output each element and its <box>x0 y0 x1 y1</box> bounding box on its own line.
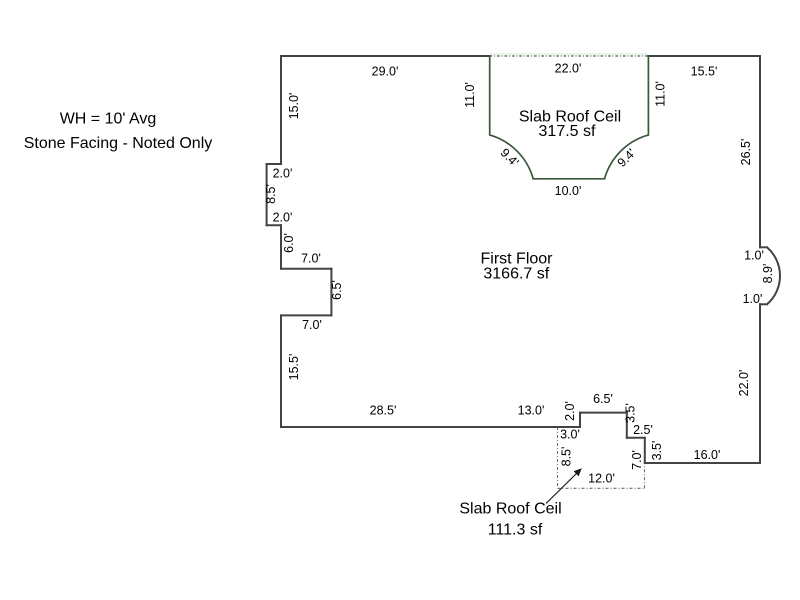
slab roof ceil (bottom) dashed edge left 8.5' <box>557 427 559 488</box>
wall: step top 6.5' <box>580 412 627 414</box>
wall: bottom 28.5' + 13.0' <box>281 426 580 428</box>
wall: notch-out left 8.5' <box>266 164 268 225</box>
svg-text:3.0': 3.0' <box>560 428 580 442</box>
svg-text:7.0': 7.0' <box>302 318 322 332</box>
svg-text:8.5': 8.5' <box>264 184 278 204</box>
slab roof ceil (bottom) dashed edge right <box>644 463 646 488</box>
svg-text:3166.7 sf: 3166.7 sf <box>483 265 549 282</box>
wall: notch-out bottom 2.0' <box>267 224 281 226</box>
wall: left upper 15.0' <box>280 56 282 164</box>
svg-text:26.5': 26.5' <box>739 139 753 166</box>
slab notch wall: right arc 9.4' <box>605 135 649 179</box>
wall: right lower 22.0' <box>759 304 761 463</box>
svg-text:12.0': 12.0' <box>588 472 615 486</box>
slab notch wall: right 11.0' <box>647 56 649 135</box>
wall: bay stub bottom 1.0' <box>760 303 767 305</box>
wall: right upper 26.5' <box>759 56 761 247</box>
wall: left 6.0' <box>280 225 282 269</box>
svg-text:317.5 sf: 317.5 sf <box>539 123 596 140</box>
svg-text:16.0': 16.0' <box>694 448 721 462</box>
svg-text:Slab Roof Ceil: Slab Roof Ceil <box>459 501 561 518</box>
wall: top-left 29.0' <box>281 55 490 57</box>
svg-text:15.5': 15.5' <box>287 354 301 381</box>
wall: notch-out top 2.0' <box>267 163 281 165</box>
svg-text:3.5': 3.5' <box>650 441 664 461</box>
svg-text:111.3 sf: 111.3 sf <box>488 522 543 539</box>
svg-text:WH = 10' Avg: WH = 10' Avg <box>60 111 157 128</box>
svg-text:1.0': 1.0' <box>743 292 763 306</box>
svg-text:15.0': 15.0' <box>287 93 301 120</box>
svg-text:29.0': 29.0' <box>372 65 399 79</box>
svg-text:2.5': 2.5' <box>633 423 653 437</box>
wall: bay arc 8.9' <box>767 247 780 304</box>
svg-text:11.0': 11.0' <box>463 82 477 108</box>
svg-text:2.0': 2.0' <box>273 167 293 181</box>
slab notch wall: left arc 9.4' <box>490 135 534 179</box>
wall: jog right 6.5' <box>330 269 332 316</box>
wall: bottom-right 16.0' <box>645 462 760 464</box>
svg-text:2.0': 2.0' <box>563 401 577 421</box>
svg-text:13.0': 13.0' <box>518 404 545 418</box>
wall: step left 2.5' <box>627 437 645 439</box>
svg-text:8.5': 8.5' <box>560 447 574 467</box>
wall: step up 3.5' (right) <box>644 438 646 463</box>
svg-text:3.5': 3.5' <box>624 403 638 423</box>
svg-text:2.0': 2.0' <box>273 210 293 224</box>
wall: bay stub top 1.0' <box>760 246 767 248</box>
arrow to bottom slab area <box>546 472 579 504</box>
slab roof ceil (top) dashed edge glow <box>490 53 648 55</box>
slab roof ceil (top) dashed edge 22.0' <box>490 55 649 57</box>
svg-text:6.5': 6.5' <box>330 280 344 300</box>
slab notch wall: left 11.0' <box>489 56 491 135</box>
wall: step down 2.0' <box>579 413 581 427</box>
wall: step up 3.5' (left) <box>626 413 628 438</box>
wall: jog top 7.0' <box>281 268 331 270</box>
svg-text:15.5': 15.5' <box>691 65 718 79</box>
svg-text:22.0': 22.0' <box>737 370 751 397</box>
svg-text:Stone Facing - Noted Only: Stone Facing - Noted Only <box>24 135 213 152</box>
svg-text:22.0': 22.0' <box>555 62 582 76</box>
svg-text:6.5': 6.5' <box>593 392 613 406</box>
slab notch wall: bottom 10.0' <box>533 178 604 180</box>
svg-text:10.0': 10.0' <box>555 184 582 198</box>
svg-text:7.0': 7.0' <box>630 450 644 470</box>
wall: jog bottom 7.0' <box>281 314 331 316</box>
svg-text:8.9': 8.9' <box>761 264 775 284</box>
svg-text:7.0': 7.0' <box>301 252 321 266</box>
wall: left lower 15.5' <box>280 315 282 427</box>
svg-text:6.0': 6.0' <box>282 233 296 253</box>
wall: top-right 15.5' <box>648 55 760 57</box>
svg-text:28.5': 28.5' <box>370 404 397 418</box>
svg-text:11.0': 11.0' <box>654 81 668 107</box>
arrow head <box>574 468 582 476</box>
svg-text:1.0': 1.0' <box>744 249 764 263</box>
slab roof ceil (bottom) dashed edge bottom 12.0' <box>558 487 645 489</box>
